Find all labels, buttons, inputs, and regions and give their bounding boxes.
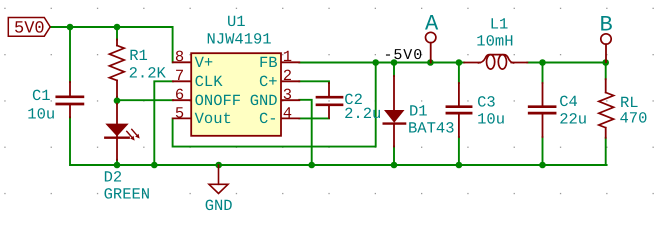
svg-text:NJW4191: NJW4191 <box>207 30 272 48</box>
svg-text:5V0: 5V0 <box>14 20 45 39</box>
svg-text:D2: D2 <box>104 168 123 186</box>
svg-text:D1: D1 <box>409 103 428 121</box>
svg-text:C+: C+ <box>259 73 278 91</box>
svg-text:10mH: 10mH <box>476 33 513 51</box>
svg-text:GREEN: GREEN <box>104 185 151 203</box>
svg-text:3: 3 <box>283 86 292 104</box>
svg-text:2.2K: 2.2K <box>129 65 167 83</box>
svg-text:BAT43: BAT43 <box>408 120 455 138</box>
svg-text:Vout: Vout <box>195 110 232 128</box>
svg-text:4: 4 <box>283 104 292 122</box>
svg-text:7: 7 <box>175 67 184 85</box>
svg-text:-5V0: -5V0 <box>384 47 424 64</box>
svg-text:22u: 22u <box>559 110 587 128</box>
svg-text:B: B <box>600 12 613 37</box>
svg-text:5: 5 <box>175 104 184 122</box>
svg-text:ONOFF: ONOFF <box>195 92 242 110</box>
svg-text:V+: V+ <box>195 54 214 72</box>
svg-text:FB: FB <box>259 54 278 72</box>
svg-text:8: 8 <box>175 48 184 66</box>
svg-text:10u: 10u <box>27 105 55 123</box>
svg-text:GND: GND <box>205 197 233 215</box>
svg-text:GND: GND <box>250 92 278 110</box>
svg-text:1: 1 <box>283 48 292 66</box>
svg-text:10u: 10u <box>477 110 505 128</box>
svg-text:C4: C4 <box>559 93 578 111</box>
svg-text:L1: L1 <box>490 16 509 34</box>
svg-text:A: A <box>425 11 439 36</box>
svg-text:R1: R1 <box>129 47 148 65</box>
svg-text:470: 470 <box>620 110 648 128</box>
svg-text:2: 2 <box>283 67 292 85</box>
svg-text:6: 6 <box>175 86 184 104</box>
svg-text:CLK: CLK <box>195 73 224 91</box>
svg-text:C1: C1 <box>32 87 51 105</box>
svg-text:C-: C- <box>259 110 278 128</box>
svg-text:U1: U1 <box>227 13 246 31</box>
svg-text:2.2u: 2.2u <box>344 105 381 123</box>
svg-text:C3: C3 <box>477 94 496 112</box>
